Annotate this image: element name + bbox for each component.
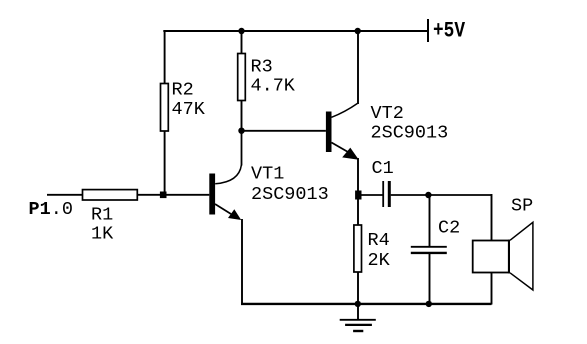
transistor VT1 emitter lead with arrow	[215, 204, 231, 214]
node top rail / VT2 collector	[355, 28, 361, 34]
svg-text:R1: R1	[91, 204, 113, 225]
svg-text:C1: C1	[372, 158, 394, 179]
transistor VT1 base bar	[209, 174, 215, 215]
node C1 / C2 junction	[425, 192, 431, 198]
wire C2 bottom segment	[429, 253, 431, 304]
node C2 bottom	[426, 301, 432, 307]
svg-text:VT2: VT2	[371, 103, 404, 124]
node R4 bottom / ground	[355, 301, 361, 307]
wire C2 top segment	[429, 195, 431, 247]
svg-text:2K: 2K	[368, 250, 391, 271]
node top of R3	[238, 28, 244, 34]
transistor VT2 emitter lead with arrow	[332, 143, 349, 153]
wire bottom ground rail	[241, 303, 492, 305]
svg-text:P1.0: P1.0	[29, 199, 73, 220]
svg-text:R4: R4	[368, 230, 390, 251]
svg-text:C2: C2	[438, 217, 460, 238]
svg-text:SP: SP	[511, 196, 533, 217]
wire R1 to VT1 base	[137, 194, 209, 196]
speaker SP body	[473, 241, 510, 273]
resistor R1	[83, 190, 138, 200]
svg-text:2SC9013: 2SC9013	[371, 122, 449, 143]
resistor R2	[161, 84, 169, 132]
transistor VT2 base bar	[326, 112, 332, 153]
wire R3 top segment	[241, 31, 243, 54]
svg-text:+5V: +5V	[433, 18, 465, 44]
resistor R4	[354, 225, 362, 272]
transistor VT2 collector lead	[332, 103, 358, 117]
wire R4 top segment	[357, 195, 359, 225]
svg-text:2SC9013: 2SC9013	[251, 184, 329, 205]
node R1/R2 junction	[160, 192, 167, 199]
svg-text:R3: R3	[251, 56, 273, 77]
power +5V supply bar	[427, 19, 429, 42]
wire R3 bottom segment	[241, 101, 243, 131]
node VT2 emitter / C1 / R4 junction	[355, 191, 361, 200]
wire top supply rail	[163, 30, 428, 32]
speaker SP horn	[510, 222, 533, 290]
svg-text:R2: R2	[172, 80, 194, 101]
svg-text:1K: 1K	[91, 224, 114, 245]
wire C2 node to speaker column	[430, 194, 492, 196]
wire VT2 emitter vertical	[357, 158, 359, 195]
node R3 bottom / VT2 base junction	[238, 128, 244, 134]
wire VT2 base horizontal	[242, 130, 326, 132]
wire VT2 collector vertical	[357, 31, 359, 104]
capacitor C2	[411, 246, 447, 248]
wire VT1 collector lead curve	[215, 165, 241, 184]
wire R2 bottom segment	[164, 131, 166, 195]
wire R4 bottom segment	[357, 272, 359, 304]
capacitor C1	[382, 181, 384, 207]
wire to C1	[358, 194, 383, 196]
svg-text:4.7K: 4.7K	[251, 75, 296, 96]
wire VT1 collector vertical	[241, 131, 243, 166]
wire speaker bottom vertical	[491, 273, 493, 305]
wire C1 to C2 node	[391, 194, 430, 196]
wire R2 top segment	[164, 30, 166, 84]
svg-text:VT1: VT1	[251, 163, 284, 184]
wire speaker top vertical	[491, 194, 493, 241]
svg-text:47K: 47K	[172, 99, 206, 120]
resistor R3	[238, 54, 246, 101]
wire VT1 emitter vertical	[241, 219, 243, 304]
ground symbol	[357, 304, 359, 320]
wire input stub	[47, 194, 83, 196]
